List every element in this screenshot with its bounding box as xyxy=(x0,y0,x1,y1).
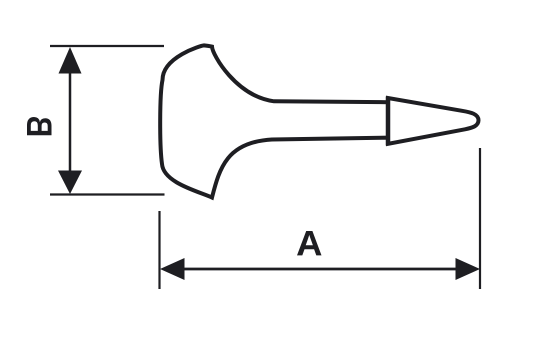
dimension A line xyxy=(168,268,472,271)
dimension B top extension line xyxy=(50,45,164,47)
dimension B line xyxy=(69,55,72,186)
dimension A left extension line xyxy=(158,211,160,289)
label A xyxy=(297,231,322,255)
nail outline xyxy=(160,45,478,197)
dimension A left arrowhead xyxy=(160,258,185,280)
dimension A right arrowhead xyxy=(456,258,481,280)
dimension B top arrowhead xyxy=(59,47,82,74)
tip flange bar xyxy=(386,97,391,146)
dimension B bottom extension line xyxy=(50,193,165,195)
label B xyxy=(27,117,52,135)
dimension A right extension line xyxy=(479,148,481,289)
dimension B bottom arrowhead xyxy=(58,171,82,195)
